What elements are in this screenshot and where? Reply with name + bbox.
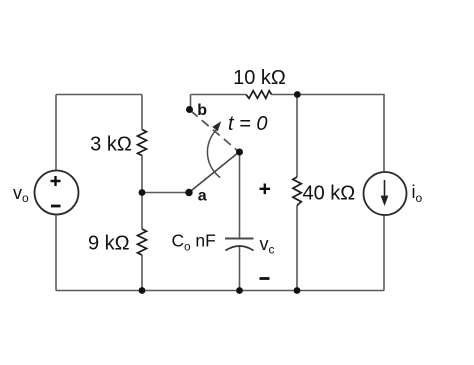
- wire: top node down to 40k top: [296, 95, 298, 178]
- node: bottom rail dot under 9k: [139, 287, 146, 294]
- wire: left vertical lower: [55, 215, 57, 291]
- wire: left vertical upper: [55, 95, 57, 172]
- svg-text:vc: vc: [260, 234, 275, 257]
- svg-text:io: io: [412, 182, 423, 205]
- node: bottom rail dot under capacitor: [236, 287, 243, 294]
- switch blade solid (pivot to a): [189, 152, 239, 193]
- wire: 40k bottom to bottom rail: [296, 206, 298, 291]
- resistor R 3kohm zigzag: [138, 130, 147, 156]
- svg-text:b: b: [197, 102, 207, 119]
- svg-text:10 kΩ: 10 kΩ: [233, 67, 286, 89]
- svg-text:9 kΩ: 9 kΩ: [88, 233, 130, 255]
- capacitor Co top plate: [225, 238, 254, 240]
- switch arc arrowhead: [212, 121, 221, 131]
- node a dot: [185, 189, 192, 196]
- node: top-right junction dot: [294, 91, 301, 98]
- node: bottom rail dot under 40k: [294, 287, 301, 294]
- svg-text:40 kΩ: 40 kΩ: [303, 183, 356, 205]
- voltage source plus sign: [51, 176, 61, 186]
- svg-text:vo: vo: [13, 183, 29, 205]
- capacitor plus polarity: [260, 184, 271, 195]
- voltage source minus sign: [51, 205, 61, 208]
- wire: 10k right to top-right corner, down to current source: [272, 95, 385, 173]
- node: 3k/9k/a junction dot: [139, 189, 146, 196]
- wire: top-left horizontal: [56, 94, 142, 96]
- wire: top wire from b corner to 10k left: [191, 94, 247, 96]
- svg-text:3 kΩ: 3 kΩ: [90, 134, 132, 156]
- capacitor Co curved plate: [226, 246, 254, 251]
- wire: bottom rail: [56, 290, 384, 292]
- capacitor minus polarity: [260, 277, 270, 280]
- svg-text:t = 0: t = 0: [228, 113, 267, 135]
- wire: b contact stub up to top wire: [190, 95, 192, 110]
- wire: switch pivot down to capacitor: [239, 152, 241, 238]
- wire: capacitor bottom to bottom rail: [239, 247, 241, 291]
- wire: x=142 down to 3k top: [141, 95, 143, 130]
- svg-text:Co nF: Co nF: [172, 231, 216, 254]
- current source arrow: [384, 180, 386, 197]
- node: switch pivot dot: [236, 149, 243, 156]
- resistor R 40kohm zigzag: [293, 177, 301, 206]
- switch motion arc: [207, 130, 220, 178]
- wire: 3k bottom to 9k top through node: [141, 156, 143, 230]
- current source io circle: [364, 172, 407, 215]
- resistor R 9kohm zigzag: [138, 229, 147, 255]
- wire: node to switch contact a: [142, 192, 189, 194]
- wire: current source bottom to bottom rail: [383, 216, 385, 291]
- node b dot: [186, 106, 193, 113]
- svg-text:a: a: [198, 187, 207, 204]
- switch dashed throw (b to pivot): [191, 111, 239, 152]
- wire: 9k bottom to bottom rail: [141, 255, 143, 291]
- resistor R 10kohm zigzag (horizontal): [246, 91, 272, 99]
- voltage source Vo circle: [35, 171, 79, 215]
